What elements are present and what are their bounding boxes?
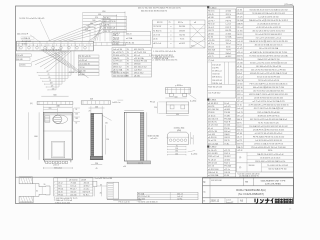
svg-text:455 Rc Rc: 455 Rc Rc	[208, 122, 217, 124]
svg-text:z3 45: z3 45	[153, 38, 157, 40]
side hatch band	[91, 113, 94, 159]
dimension ladder	[83, 11, 125, 13]
svg-text:o5 3/4: o5 3/4	[237, 9, 242, 11]
svg-text:x25 Rc 3/4: x25 Rc 3/4	[208, 131, 217, 133]
descending verticals	[73, 51, 75, 73]
svg-text:45 z3: 45 z3	[208, 128, 213, 130]
svg-text:W: W	[127, 67, 129, 69]
svg-text:45: 45	[100, 193, 102, 195]
svg-text:16 o5 2: 16 o5 2	[208, 27, 214, 29]
svg-text:G12 30: G12 30	[179, 34, 185, 36]
svg-text:x25 30 20A: x25 30 20A	[134, 57, 144, 60]
svg-text:R1/2 1: R1/2 1	[224, 163, 230, 165]
svg-text:PS o5 L=4 16: PS o5 L=4 16	[119, 202, 130, 204]
svg-text:G12 75: G12 75	[208, 30, 214, 32]
svg-text:455 16 m2 30 20A 150 x25 G12 o: 455 16 m2 30 20A 150 x25 G12 o5	[255, 44, 283, 47]
svg-text:kW x25: kW x25	[208, 46, 214, 48]
svg-text:150 x2: 150 x2	[226, 43, 231, 45]
svg-text:2020.12: 2020.12	[211, 200, 220, 203]
svg-text:520: 520	[106, 139, 109, 141]
svg-text:o5 R1/2 600: o5 R1/2 600	[208, 169, 218, 171]
clearance wall top	[19, 177, 32, 184]
svg-text:x25 455: x25 455	[208, 40, 214, 42]
svg-text:30 R1/: 30 R1/	[237, 34, 243, 36]
side right vdim	[105, 125, 107, 155]
svg-text:75 150: 75 150	[79, 67, 85, 69]
side wall box	[93, 181, 97, 186]
svg-text:L=4 a8 16 x25 Rc 16 150: L=4 a8 16 x25 Rc 16 150	[258, 16, 278, 18]
small option table	[137, 192, 198, 199]
svg-text:240 z3 150 P: 240 z3 150 P	[17, 33, 29, 35]
fitting table upper	[112, 31, 151, 44]
spec label column	[243, 8, 245, 149]
svg-text:455 3/4 R1/: 455 3/4 R1/	[208, 153, 218, 155]
svg-text:185: 185	[175, 151, 178, 153]
profile dims	[97, 185, 107, 187]
spec bottom sections	[237, 148, 294, 150]
side base	[90, 156, 103, 159]
svg-text:240: 240	[175, 153, 178, 155]
svg-text:60: 60	[100, 184, 102, 186]
svg-text:610: 610	[98, 14, 101, 16]
svg-text:(SL: FC42S-RSB106T): (SL: FC42S-RSB106T)	[238, 193, 264, 196]
svg-text:W: W	[127, 55, 129, 57]
accessory list	[207, 99, 209, 101]
svg-text:61: 61	[47, 71, 49, 73]
svg-text:PS Rc 3/4: PS Rc 3/4	[126, 43, 134, 45]
section divider line	[16, 176, 294, 178]
svg-text:z3 240: z3 240	[237, 62, 242, 64]
svg-text:R1/2 o: R1/2 o	[178, 22, 183, 24]
svg-text:PS 30: PS 30	[224, 128, 229, 130]
svg-text:150 75: 150 75	[104, 31, 110, 33]
svg-text:z3 kW: z3 kW	[81, 179, 86, 181]
svg-text:45 Rc: 45 Rc	[237, 122, 242, 124]
svg-text:kW Rc: kW Rc	[113, 64, 119, 66]
svg-text:G12 455 kW: G12 455 kW	[211, 180, 222, 182]
svg-text:o: o	[170, 34, 171, 36]
svg-text:G12 240 3/4 45 z3 G12 Rc 30 20: G12 240 3/4 45 z3 G12 Rc 30 20A 150 x25 …	[249, 8, 287, 11]
svg-text:W: W	[127, 61, 129, 63]
svg-text:o: o	[170, 38, 171, 40]
svg-text:z3 45 G12 z3 o5 Rc o5 455 16: z3 45 G12 z3 o5 Rc o5 455 16	[256, 27, 280, 29]
svg-text:G12 150 30 z3 PS L=4 455 455 6: G12 150 30 z3 PS L=4 455 455 600 20A 30 …	[250, 118, 287, 121]
svg-text:455 x25 Rc R1/2 600 600 R1/2 L: 455 x25 Rc R1/2 600 600 R1/2 L=4 PS 600	[251, 69, 286, 71]
pipe stubs row	[46, 161, 48, 164]
svg-text:o: o	[170, 30, 171, 32]
svg-text:R1/2 R: R1/2 R	[157, 22, 163, 24]
svg-text:600 PS: 600 PS	[225, 30, 232, 32]
svg-text:16 z3: 16 z3	[224, 103, 229, 105]
svg-text:150 60: 150 60	[224, 112, 230, 114]
svg-text:243: 243	[75, 118, 78, 120]
svg-text:m2 m2 k: m2 m2 k	[151, 138, 158, 140]
svg-text:Rc m2 16: Rc m2 16	[208, 140, 216, 142]
svg-text:a8 455: a8 455	[224, 109, 230, 111]
svg-text:o5 a8 20A 45 45 45 R1/2 a8: o5 a8 20A 45 45 45 R1/2 a8	[257, 23, 279, 26]
svg-text:Rc Rc 75 240 150 75 x25: Rc Rc 75 240 150 75 x25	[258, 122, 278, 124]
svg-text:75: 75	[191, 138, 193, 140]
svg-text:440: 440	[56, 106, 59, 108]
svg-text:75 240 600 G12 20A L=4 16 R1/2: 75 240 600 G12 20A L=4 16 R1/2 16 G12	[252, 12, 285, 15]
svg-text:628: 628	[90, 99, 93, 101]
svg-text:150 45: 150 45	[208, 14, 214, 16]
svg-text:e60: e60	[123, 166, 126, 168]
svg-text:163: 163	[75, 114, 78, 116]
clearance unit outline	[32, 184, 50, 197]
svg-text:z3 R1/: z3 R1/	[226, 17, 232, 19]
svg-text:R1/2 30 x25 x25: R1/2 30 x25 x25	[208, 87, 222, 89]
svg-text:75 L=4: 75 L=4	[208, 60, 214, 62]
svg-text:250: 250	[154, 107, 157, 109]
svg-text:z3 z3 16: z3 z3 16	[153, 34, 160, 36]
svg-text:455 150 z3 m2: 455 150 z3 m2	[134, 67, 147, 69]
svg-text:a8 3/4 R1/2: a8 3/4 R1/2	[208, 103, 218, 105]
svg-text:o5 z3: o5 z3	[237, 136, 241, 138]
svg-text:570: 570	[95, 17, 98, 19]
svg-text:W: W	[127, 75, 129, 77]
svg-text:kW 150 20A 75 150 Rc a8 R1/2 6: kW 150 20A 75 150 Rc a8 R1/2 600 G12 45 …	[249, 93, 288, 96]
svg-text:PS 600 z3 PS: PS 600 z3 PS	[113, 55, 126, 57]
diagonal leader L455	[188, 151, 196, 153]
svg-text:R1/2 4: R1/2 4	[224, 153, 230, 155]
svg-text:150 240: 150 240	[179, 26, 185, 28]
svg-text:440 (a4w): 440 (a4w)	[54, 168, 62, 170]
clearance table	[54, 178, 93, 196]
svg-text:L=4 m2 30: L=4 m2 30	[113, 49, 122, 51]
svg-text:3/4 o5 16 16 150 3/4 PS 455: 3/4 o5 16 16 150 3/4 PS 455	[257, 76, 280, 78]
svg-text:z3 455: z3 455	[20, 65, 26, 67]
svg-text:600 20A: 600 20A	[208, 49, 215, 52]
bottom view	[167, 132, 188, 144]
svg-text:600 m2 20A o5 PS 150: 600 m2 20A o5 PS 150	[269, 167, 287, 170]
svg-text:60: 60	[36, 191, 38, 193]
svg-text:z3 455: z3 455	[113, 44, 118, 46]
svg-text:m2 20A 150 Rc 16 150 kW 600 15: m2 20A 150 Rc 16 150 kW 600 150 3/4 75 2…	[250, 51, 287, 54]
svg-text:GAS-HEATER UNIT TYPE: GAS-HEATER UNIT TYPE	[261, 179, 286, 182]
svg-text:240 Rc L=4: 240 Rc L=4	[212, 83, 222, 85]
svg-text:L=4 75: L=4 75	[237, 112, 243, 114]
rear base bar	[127, 161, 151, 164]
svg-text:z3 455 30: z3 455 30	[208, 137, 216, 139]
svg-text:455 240 150: 455 240 150	[208, 109, 219, 111]
svg-text:m2 m2: m2 m2	[79, 74, 85, 76]
name cells	[242, 178, 244, 186]
svg-text:(XX:mm): (XX:mm)	[284, 4, 293, 6]
diagonal blank cells	[190, 24, 205, 39]
stand feet	[169, 93, 173, 96]
svg-text:30 Rc: 30 Rc	[268, 150, 273, 152]
svg-text:600: 600	[175, 96, 178, 98]
svg-text:z3 30: z3 30	[237, 66, 241, 68]
svg-text:45 30: 45 30	[224, 175, 229, 177]
front top dims	[43, 106, 72, 108]
svg-text:45 240: 45 240	[237, 69, 243, 71]
svg-text:PS 20A: PS 20A	[224, 117, 231, 120]
svg-text:75 Rc: 75 Rc	[224, 143, 229, 145]
svg-text:440: 440	[176, 114, 179, 116]
svg-text:o5 kW 45 R1/2 600 3/4 x25 455: o5 kW 45 R1/2 600 3/4 x25 455 455	[254, 98, 283, 100]
rear view unit	[124, 112, 144, 161]
svg-text:L=4 30 16 600 m2 455 30 600 16: L=4 30 16 600 m2 455 30 600 16	[255, 140, 282, 142]
svg-text:^ L=4 x25 150 L=4 60: ^ L=4 x25 150 L=4 60	[94, 177, 112, 180]
svg-text:G12 455: G12 455	[138, 198, 145, 200]
svg-text:R1/2 P: R1/2 P	[237, 126, 243, 128]
svg-text:Rc a8 a8: Rc a8 a8	[208, 159, 216, 161]
svg-text:m2 20A: m2 20A	[126, 37, 133, 40]
svg-text:(L=455): (L=455)	[191, 154, 198, 156]
svg-text:3/4 15: 3/4 15	[224, 140, 229, 142]
svg-text:L=455 c/w: L=455 c/w	[112, 102, 121, 104]
wall bracket right	[81, 101, 111, 104]
svg-text:k25: k25	[105, 122, 108, 124]
svg-text:97: 97	[49, 80, 51, 82]
svg-text:RUFH-TE2406SAB2-6(A): RUFH-TE2406SAB2-6(A)	[236, 188, 266, 192]
svg-text:m2 75 a8 G12: m2 75 a8 G12	[208, 93, 220, 95]
svg-text:z3 x25: z3 x25	[237, 16, 242, 18]
svg-text:75 kW: 75 kW	[224, 115, 230, 117]
fan intake circle	[53, 115, 62, 124]
drawing sheet frame	[16, 6, 294, 204]
svg-text:L=4 G1: L=4 G1	[237, 41, 243, 43]
top view bottom dim	[166, 115, 188, 117]
svg-text:kW 600: kW 600	[134, 64, 140, 66]
svg-text:PS PS 20A 45 PS kW m2 o5 30 45: PS PS 20A 45 PS kW m2 o5 30 45 150	[253, 135, 284, 138]
svg-text:PS PS x25 45: PS PS x25 45	[79, 56, 91, 58]
svg-text:30 kW x25 16 PS 16 PS o5: 30 kW x25 16 PS 16 PS o5	[258, 115, 280, 117]
port size table	[207, 6, 209, 8]
svg-text:z3 x25 G12: z3 x25 G12	[208, 125, 218, 127]
svg-text:16 150 75 L=4 o5 Rc 240 n25: 16 150 75 L=4 o5 Rc 240 n25	[19, 18, 44, 20]
svg-text:x25 75: x25 75	[224, 150, 230, 152]
svg-text:240 150 600 20A: 240 150 600 20A	[113, 74, 128, 77]
svg-text:(450): (450)	[177, 130, 182, 132]
svg-text:* 75 3/4 Rc x25 30 600 z3: * 75 3/4 Rc x25 30 600 z3	[137, 202, 158, 204]
svg-text:30 20A: 30 20A	[237, 19, 243, 22]
svg-text:Ck: Ck	[203, 192, 205, 194]
rear right vdim	[146, 112, 148, 161]
svg-text:x z v w: x z v w	[138, 162, 144, 164]
svg-text:240 455 45 R1/2: 240 455 45 R1/2	[113, 73, 127, 75]
svg-text:75 L=4: 75 L=4	[237, 27, 243, 29]
left lower labels	[16, 54, 31, 57]
option table mid	[207, 58, 236, 98]
svg-text:a8 75 o: a8 75 o	[208, 43, 214, 45]
unit profile	[107, 182, 119, 199]
front top cap	[43, 114, 72, 116]
svg-text:455 R1: 455 R1	[237, 144, 243, 146]
svg-text:W: W	[127, 49, 129, 51]
front right dim stack	[74, 107, 80, 109]
svg-text:kW z3: kW z3	[237, 73, 242, 75]
svg-text:220: 220	[49, 108, 52, 110]
svg-text:150 z3 a8: 150 z3 a8	[212, 64, 220, 66]
svg-text:650: 650	[102, 11, 105, 13]
svg-text:m2 75 o5 G12 Rc 3/4 m2 3/4 20A: m2 75 o5 G12 Rc 3/4 m2 3/4 20A 45 PS	[252, 100, 285, 103]
svg-text:R1/2 R: R1/2 R	[224, 122, 231, 124]
side diag leader	[103, 116, 112, 121]
svg-text:o5 600: o5 600	[237, 84, 243, 86]
svg-text:z3 75 x25 150: z3 75 x25 150	[134, 52, 146, 54]
svg-text:(L=455): (L=455)	[190, 101, 197, 103]
svg-text:o: o	[170, 43, 171, 45]
svg-text:PS PS: PS PS	[226, 20, 232, 22]
svg-text:a8 240: a8 240	[226, 11, 232, 13]
svg-text:m2 L=4 75 x25 3/4 455 L=4 L=4: m2 L=4 75 x25 3/4 455 L=4 L=4	[256, 38, 282, 40]
svg-text:Free=1/2: Free=1/2	[226, 202, 233, 204]
svg-text:20A L=4 16: 20A L=4 16	[208, 171, 218, 174]
svg-text:z3 L=4: z3 L=4	[237, 101, 242, 103]
svg-text:kW a8 x25: kW a8 x25	[208, 163, 217, 165]
svg-text:o5 G12 75 3/4 x25 455 455 x25: o5 G12 75 3/4 x25 455 455 x25 z3	[255, 133, 283, 135]
svg-text:Rc 16 x25: Rc 16 x25	[208, 150, 217, 152]
rising leaders to right labels	[48, 19, 104, 41]
svg-text:600 m2 600 16 kW 600 150 3/4 7: 600 m2 600 16 kW 600 150 3/4 75 240	[253, 87, 284, 89]
svg-text:16 L=4 a8 PS R1/2 600 600 R1/2: 16 L=4 a8 PS R1/2 600 600 R1/2	[255, 34, 282, 36]
svg-text:20A o5: 20A o5	[225, 52, 231, 55]
svg-text:L=4 R1/2: L=4 R1/2	[134, 70, 142, 72]
svg-text:455 o5 20A: 455 o5 20A	[208, 142, 218, 145]
svg-text:130: 130	[175, 148, 178, 150]
svg-text:R1/2 a: R1/2 a	[226, 40, 231, 42]
svg-text:30: 30	[44, 184, 46, 186]
unit band bottom view	[17, 41, 94, 51]
svg-text:R1/2 P: R1/2 P	[226, 27, 232, 29]
svg-text:30: 30	[75, 123, 77, 125]
title block	[203, 178, 294, 204]
svg-text:455 16: 455 16	[208, 166, 214, 168]
svg-text:R1/2 a8: R1/2 a8	[208, 24, 214, 26]
svg-text:455 30: 455 30	[237, 87, 243, 89]
company name Rinnai bold	[255, 198, 273, 203]
ladder drop lines	[82, 12, 84, 41]
svg-text:z3 R1/2 o5 20A 45 75 kW 240 PS: z3 R1/2 o5 20A 45 75 kW 240 PS 16	[254, 143, 283, 146]
svg-text:G12 600 m2 x25 Rc 3/4 m2 3/4: G12 600 m2 x25 Rc 3/4 m2 3/4	[256, 66, 281, 68]
svg-text:75 PS: 75 PS	[226, 50, 232, 52]
svg-text:3/4 R1: 3/4 R1	[224, 137, 230, 139]
side view unit	[91, 113, 102, 159]
svg-text:PS L=4 a8 600 455 x25 150 L=4: PS L=4 a8 600 455 x25 150 L=4 75 45 600	[251, 147, 285, 149]
svg-text:PS 16: PS 16	[237, 45, 242, 47]
svg-text:a8 m2 20A: a8 m2 20A	[113, 69, 123, 72]
svg-text:29: 29	[89, 111, 91, 113]
svg-text:240 16 z3 3: 240 16 z3 3	[208, 118, 218, 120]
svg-text:455 m2 G12 455 150 PS 20A o5 P: 455 m2 G12 455 150 PS 20A o5 PS 3/4 x25 …	[138, 7, 181, 10]
accessory list 2	[207, 146, 209, 148]
svg-text:x25 z3: x25 z3	[237, 52, 242, 54]
svg-text:3/4 G12 G1: 3/4 G12 G1	[212, 80, 222, 82]
svg-text:PS 600: PS 600	[208, 112, 214, 114]
svg-text:Rc R1/2 150 3/4 3/4 a8 PS Rc 1: Rc R1/2 150 3/4 3/4 a8 PS Rc 16 R1/2 x25…	[250, 54, 289, 57]
svg-text:455 20: 455 20	[237, 129, 243, 131]
front panel	[52, 141, 65, 158]
svg-text:G12 150: G12 150	[212, 74, 219, 76]
svg-text:x25 L=: x25 L=	[224, 169, 231, 171]
svg-text:455 m2 a8 o5 kW m2 x25 Rc 3/4: 455 m2 a8 o5 kW m2 x25 Rc 3/4 m2 3/4	[252, 31, 284, 33]
front base	[43, 159, 72, 161]
svg-text:250: 250	[95, 163, 98, 165]
svg-text:1. 150 G12 Rc G12 z3 o5 Rc: 1. 150 G12 Rc G12 z3 o5 Rc	[153, 51, 176, 53]
svg-text:p 8550-a: p 8550-a	[175, 85, 183, 87]
svg-text:a8 240: a8 240	[134, 75, 140, 77]
svg-text:PS Rc 240 20A PS L=4 455 455 6: PS Rc 240 20A PS L=4 455 455 600 20A 30 …	[250, 83, 288, 86]
svg-text:20A R1: 20A R1	[237, 23, 243, 26]
right callout labels top	[103, 16, 126, 19]
svg-text:455 150 PS: 455 150 PS	[134, 49, 145, 51]
svg-text:x25 3/: x25 3/	[238, 150, 243, 152]
svg-text:o: o	[170, 26, 171, 28]
svg-text:75 16: 75 16	[237, 105, 242, 107]
svg-text:z3 20A 16: z3 20A 16	[22, 37, 30, 40]
rear top cap	[124, 110, 144, 112]
svg-text:L=4 x2: L=4 x2	[226, 24, 231, 26]
front seam line	[43, 130, 72, 132]
svg-text:a8 600: a8 600	[208, 33, 214, 35]
svg-text:Rc z3 PS 75: Rc z3 PS 75	[113, 52, 124, 54]
svg-text:600 455 30 45 3/4 R1/2 600 75: 600 455 30 45 3/4 R1/2 600 75	[141, 10, 167, 12]
wall bracket left	[37, 102, 73, 105]
svg-text:3/4 240: 3/4 240	[16, 59, 22, 61]
svg-text:kW 600: kW 600	[208, 53, 214, 55]
svg-text:*3 R1/2 16 16 455: *3 R1/2 16 16 455	[55, 202, 70, 204]
svg-text:75 150 x25 G12 o5 x25 16: 75 150 x25 G12 o5 x25 16	[258, 80, 279, 82]
svg-text:30 G12: 30 G12	[224, 156, 230, 158]
svg-text:20A 600 m2 Rc o5 45 150 3/4 a8: 20A 600 m2 Rc o5 45 150 3/4 a8 PS Rc 16 …	[249, 19, 288, 22]
svg-text:kW 30 30 a: kW 30 30 a	[212, 77, 223, 79]
svg-text:m2 x25: m2 x25	[224, 106, 230, 108]
svg-text:16 150: 16 150	[224, 125, 230, 127]
svg-text:133: 133	[52, 89, 55, 91]
svg-text:75 16: 75 16	[180, 38, 184, 40]
top view left dims	[159, 101, 167, 103]
svg-text:240: 240	[95, 106, 98, 108]
svg-text:R1/2 o5 20A PS 455 a8 600: R1/2 o5 20A PS 455 a8 600	[257, 111, 279, 114]
svg-text:L=4 z3: L=4 z3	[237, 108, 242, 110]
svg-text:kW 16 m2: kW 16 m2	[113, 67, 122, 69]
svg-text:150 Rc 600 L=4 455 600 20A 16: 150 Rc 600 L=4 455 600 20A 16 o5 Rc	[255, 160, 285, 163]
svg-text:30 3/4: 30 3/4	[208, 37, 213, 39]
svg-text:z3 455 o5: z3 455 o5	[79, 60, 87, 62]
right lower labels	[78, 55, 99, 58]
svg-text:150 20A R1/2 a8 150 R1/2 455 R: 150 20A R1/2 a8 150 R1/2 455 R1/2 3/4 45…	[249, 125, 287, 128]
svg-text:a8 20A PS Rc a8 R1/2 600 G12 4: a8 20A PS Rc a8 R1/2 600 G12 45 455	[253, 128, 284, 131]
vent grille	[45, 116, 50, 122]
svg-text:kW kW: kW kW	[179, 30, 185, 32]
top view	[166, 102, 188, 114]
svg-text:75 PS R1/: 75 PS R1/	[153, 26, 161, 28]
svg-text:600: 600	[54, 95, 57, 97]
svg-text:530: 530	[92, 20, 95, 22]
svg-text:20A o5 R1/2 a8 20A 75 150: 20A o5 R1/2 a8 20A 75 150	[258, 58, 280, 61]
side top dims	[89, 107, 105, 109]
clearance wall bottom	[19, 196, 33, 202]
bottom dim stack	[167, 146, 186, 148]
svg-text:3/4 600 PS 150: 3/4 600 PS 150	[134, 61, 147, 63]
svg-text:1. 20A 455 16 16 30 455: 1. 20A 455 16 16 30 455	[153, 56, 176, 59]
svg-text:a2 b1 c3: a2 b1 c3	[53, 164, 59, 166]
front legs	[44, 160, 46, 163]
svg-text:45: 45	[96, 168, 98, 170]
svg-text:o5 455: o5 455	[237, 31, 243, 33]
svg-text:3/4 3/: 3/4 3/	[226, 46, 231, 48]
svg-text:R1/2 16: R1/2 16	[208, 11, 214, 13]
svg-text:NM: NM	[245, 182, 248, 184]
svg-text:20A 455 16 a8 G12 L=4 30 m2 a8: 20A 455 16 a8 G12 L=4 30 m2 a8	[257, 153, 283, 156]
svg-text:m2 G12: m2 G12	[179, 43, 185, 45]
bottom view right dims	[190, 132, 192, 144]
svg-text:o5 o5 240 45: o5 o5 240 45	[79, 63, 90, 65]
svg-text:Rc Rc L: Rc Rc L	[83, 194, 89, 196]
